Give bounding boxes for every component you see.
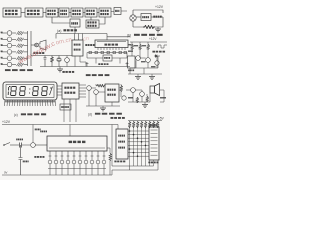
matrix bottom bus <box>112 125 158 171</box>
capacitor C2 series <box>18 143 30 148</box>
resistor R14 vertical <box>120 84 123 97</box>
LED column 6 <box>78 151 82 172</box>
middle small box B-div <box>103 55 112 61</box>
center lower rail y66 <box>40 66 130 68</box>
pin name ticks under LEDs <box>48 168 106 169</box>
middle row value labels <box>98 63 108 65</box>
resistor R16b vertical <box>146 94 149 102</box>
chime top rail <box>130 41 167 43</box>
IC1 part number label <box>85 44 94 46</box>
ground output <box>142 102 148 107</box>
wire reg right <box>151 16 163 18</box>
wire B6 to C2 <box>90 17 92 20</box>
paper background <box>0 0 170 180</box>
resistor R13 horizontal <box>96 84 105 87</box>
wire B7-B8 <box>111 10 127 13</box>
connector top label <box>149 124 157 126</box>
colon <box>28 89 31 93</box>
LED column 2 <box>54 151 58 172</box>
matrix row wire 1 <box>128 130 149 132</box>
display AM/PM mark <box>50 87 53 96</box>
resistor RP5 <box>144 121 147 128</box>
matrix row wire 3 <box>128 137 149 139</box>
resistor R10 vertical <box>131 42 134 54</box>
matrix junction dots <box>129 130 147 157</box>
svg-text:.cn: .cn <box>81 36 89 43</box>
caption (d) alarm label <box>88 112 92 116</box>
matrix row wire 7 <box>128 152 149 154</box>
driver row 1: transistor Q1, resistor <box>1 31 28 36</box>
wire Q15 collector to rail <box>32 125 34 143</box>
chime mesh wires <box>130 54 158 74</box>
transistor Q12 <box>122 96 126 100</box>
block B3 counter <box>46 8 58 17</box>
transistor Q7 <box>65 56 70 67</box>
resistor R15 vertical <box>136 97 139 103</box>
regulator label text <box>153 16 161 18</box>
LED column 10 <box>102 151 106 172</box>
diode string row <box>87 51 127 53</box>
switch S1 <box>3 143 18 146</box>
display module outline <box>3 82 57 100</box>
IC2 pin number row inside <box>97 41 126 42</box>
driver row transistors Q1..Q6 with base resistors <box>1 31 28 67</box>
wires display to IC3 <box>57 86 62 95</box>
wire T1 top <box>132 10 134 15</box>
resistor RP3 <box>136 121 139 128</box>
resistor R11 vertical <box>139 42 142 54</box>
ground power <box>155 29 161 32</box>
wire C1 to bus <box>74 27 76 34</box>
svg-text:+12V: +12V <box>155 5 164 9</box>
LED column 1 <box>48 151 52 172</box>
IC5 driver chip <box>47 136 107 151</box>
block B7 chime output <box>99 8 111 17</box>
svg-text:+12V: +12V <box>2 120 11 124</box>
wire C2 to B7 <box>99 17 105 24</box>
crystal Y1 <box>57 56 61 67</box>
ground chime2 <box>149 74 155 79</box>
LED column 4 <box>66 151 70 172</box>
speaker SP <box>150 84 160 96</box>
rail drop right <box>117 125 119 130</box>
block B5 display driver <box>71 8 83 17</box>
LED column 5 <box>72 151 76 172</box>
resistor RP6 <box>148 121 151 128</box>
IC6 label below <box>114 161 125 163</box>
power bottom rail wire <box>133 17 163 27</box>
svg-text:(d): (d) <box>88 112 92 116</box>
seven segment digits 88:88 <box>8 87 47 96</box>
matrix row wire 2 <box>128 134 149 136</box>
LED column 9 <box>96 151 100 172</box>
resistor R16 vertical <box>107 148 112 175</box>
svg-text:(c): (c) <box>14 113 18 117</box>
output transistor Q13 <box>131 88 136 93</box>
R17 label <box>35 129 41 131</box>
digit 1 <box>11 87 17 96</box>
display inner screen <box>6 85 54 98</box>
resistor RP2 <box>132 121 135 128</box>
caption (c) display label <box>14 113 18 117</box>
red watermark diagonal part 3 <box>81 36 89 43</box>
matrix col wire 1 <box>129 127 131 166</box>
wire top bus over IC1 IC2 <box>56 34 130 41</box>
driver row 5: transistor Q5, resistor <box>1 56 28 61</box>
IC2 pin stubs <box>98 48 125 51</box>
transistor Q8b <box>155 56 159 68</box>
wire T1 bottom <box>132 21 134 27</box>
middle row end ticks <box>86 62 129 67</box>
resistor RP4 <box>140 121 143 128</box>
ground center <box>57 67 63 72</box>
svg-text:+5V: +5V <box>158 117 165 121</box>
display pin number ticks <box>5 101 56 103</box>
power circuit top rail wire <box>133 10 163 13</box>
block C2 alarm preset block <box>86 20 99 28</box>
driver bus vertical A <box>27 31 29 66</box>
resistor RP7 <box>152 121 155 128</box>
driver row 6: transistor Q6, resistor <box>1 62 28 67</box>
matrix row wire 8 <box>128 155 149 157</box>
svg-text:(a): (a) <box>57 29 61 33</box>
IC3 clock chip <box>62 83 79 99</box>
LED anode tick row <box>49 155 106 157</box>
digit 0 (narrow leading) <box>8 87 10 96</box>
matrix pullup resistors row <box>128 121 159 128</box>
transistor Q8 <box>132 54 140 64</box>
transistor Q15 <box>31 143 47 148</box>
transformer box T2 <box>128 56 136 71</box>
IC5 left label <box>40 131 47 133</box>
wire middle row <box>87 53 127 64</box>
output transistor Q14 <box>140 92 145 97</box>
pulse waveform symbol <box>158 45 167 48</box>
bottom bus <box>2 174 112 176</box>
block B8 speaker stage <box>114 8 121 15</box>
block C1 display block <box>70 19 80 27</box>
alarm transistor Q10 <box>87 86 92 91</box>
wire B3-B4 <box>57 12 59 14</box>
transformer/lamp T1 <box>130 15 136 21</box>
center horizontal wire y55 <box>31 55 72 57</box>
svg-text:+12V: +12V <box>149 37 157 41</box>
wires IC3 right pins <box>79 85 86 97</box>
matrix col wire 5 <box>145 127 147 166</box>
display pins <box>4 100 55 106</box>
center wire bus down from blocks <box>75 34 83 41</box>
wire reg left <box>136 16 141 18</box>
LED column 3 <box>60 151 64 172</box>
wire B4-B5 <box>69 12 71 14</box>
LED columns to bus <box>50 172 104 175</box>
LED columns with LEDs <box>48 151 106 172</box>
small box under IC3 <box>60 104 71 110</box>
red watermark diagonal part 2 <box>55 37 72 46</box>
wire matrix to left circuit <box>111 170 113 175</box>
digit 3 <box>33 87 39 96</box>
digit 2 <box>20 87 26 96</box>
wire bus to horn <box>31 44 36 46</box>
block B6 alarm logic <box>85 8 97 17</box>
chime note text <box>152 51 165 53</box>
bottom supply rail <box>2 124 118 126</box>
alarm wires <box>86 84 120 106</box>
ground alarm <box>100 106 106 111</box>
svg-text:0V: 0V <box>4 171 8 175</box>
wire B5-B6 <box>83 12 85 14</box>
resistor R-c vertical <box>50 56 53 67</box>
IC1 bottom pin wires <box>75 56 86 67</box>
LED column label <box>34 156 44 158</box>
matrix col wire 7 <box>153 160 155 166</box>
LED column 8 <box>90 151 94 172</box>
digit 4 <box>42 87 48 96</box>
matrix col wire 4 <box>141 127 143 166</box>
matrix col wire 6 <box>149 160 151 166</box>
wire gnd stub <box>157 27 159 29</box>
C3 label <box>23 161 29 163</box>
block B1 crystal oscillator <box>3 8 21 17</box>
buzzer BL horn <box>35 40 47 50</box>
driver row 3: transistor Q3, resistor <box>1 43 28 48</box>
caption center circuit label <box>62 71 74 73</box>
matrix col wire 3 <box>137 127 139 166</box>
wire B6-B7 <box>97 12 99 14</box>
output wires <box>126 90 164 102</box>
driver bus vertical B <box>30 31 32 66</box>
matrix row wire 6 <box>128 148 149 150</box>
LED column 7 <box>84 151 88 172</box>
caption resistor values row <box>5 69 33 71</box>
matrix horizontal wires <box>128 131 149 156</box>
resistor R12 vertical <box>147 42 150 54</box>
red watermark diagonal part 1 <box>17 40 57 66</box>
capacitor C3 vertical <box>19 145 23 175</box>
caption (a) block diagram label <box>57 29 61 33</box>
caption (b) power label <box>127 34 131 38</box>
diode D2 <box>154 55 160 58</box>
output labels <box>128 97 166 99</box>
matrix row wire 5 <box>128 144 149 146</box>
IC3 bottom pin wires <box>64 99 76 122</box>
capacitor C1 vertical <box>44 56 47 67</box>
resistor RP1 <box>128 121 131 128</box>
matrix caption text <box>110 117 124 119</box>
connector label below <box>148 162 158 164</box>
caption chime circuit label <box>86 74 110 76</box>
ground chime <box>135 74 141 79</box>
block B2 divider <box>25 8 43 17</box>
resistor RP8 <box>156 121 159 128</box>
wire B2-B3 <box>43 12 46 14</box>
driver row 4: transistor Q4, resistor <box>1 50 28 55</box>
transistor Q9 <box>146 54 151 66</box>
wire B1-B2 <box>21 12 25 14</box>
IC1 oscillator chip <box>72 40 83 56</box>
matrix vertical wires <box>130 127 154 166</box>
matrix col wire 2 <box>133 127 135 166</box>
right connector box <box>149 127 159 160</box>
wire B3 to C1 <box>52 17 70 23</box>
rail drop to IC5 <box>69 125 71 137</box>
IC4 melody chip <box>105 84 119 102</box>
regulator box U-reg <box>141 14 151 21</box>
chime bottom rail <box>128 73 162 75</box>
driver row pin labels <box>1 32 3 65</box>
matrix row wire 4 <box>128 141 149 143</box>
capacitor C2 label <box>16 139 23 141</box>
IC2 divider chip <box>95 40 128 48</box>
block B4 decoder <box>59 8 69 17</box>
resistor R-pwr <box>143 25 155 28</box>
R10 R11 value labels <box>128 44 156 67</box>
matrix top rail <box>128 120 162 122</box>
alarm transistor Q11 <box>94 90 99 95</box>
driver label text <box>33 52 44 54</box>
IC6 scan chip <box>116 129 128 159</box>
driver row 2: transistor Q2, resistor <box>1 37 28 42</box>
